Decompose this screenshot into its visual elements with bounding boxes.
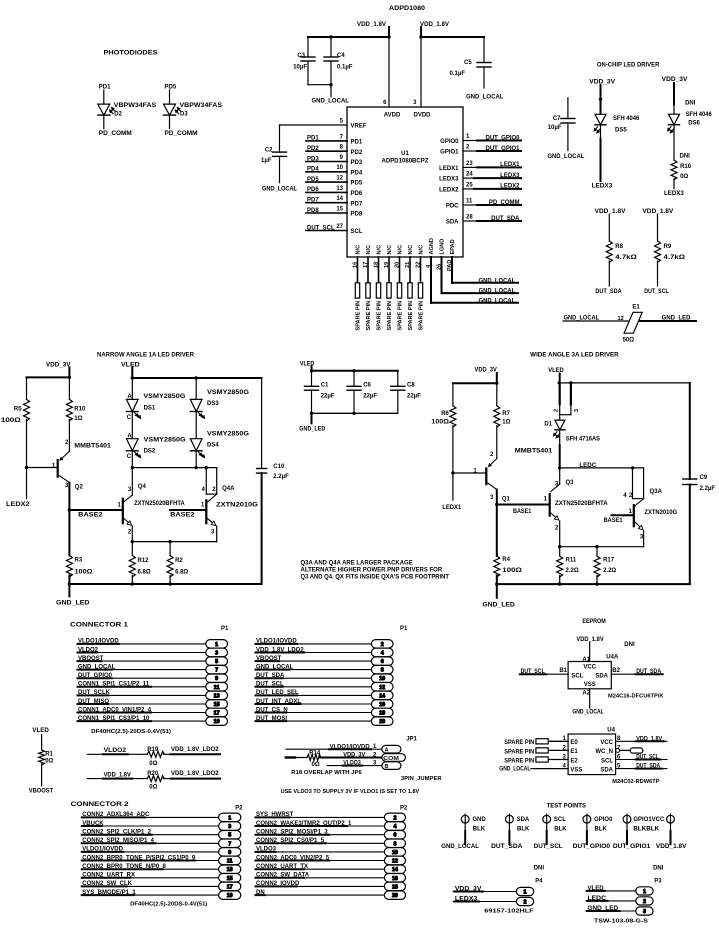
svg-text:VDD_3V: VDD_3V	[455, 887, 482, 893]
pin 18 N/C spare	[373, 245, 382, 331]
wire VLED caps top rail	[311, 367, 313, 371]
connector P2 pin 6 CONN2_SPI2_MOSI/P1_3	[256, 830, 406, 840]
svg-text:3: 3	[555, 482, 559, 488]
svg-text:M24C16-DFCU6TP/K: M24C16-DFCU6TP/K	[608, 693, 664, 699]
svg-text:2: 2	[643, 899, 646, 905]
svg-text:PAD: PAD	[447, 260, 453, 271]
power VDD_1.8V left	[357, 22, 386, 28]
section title CONNECTOR 1	[70, 622, 129, 629]
svg-text:15: 15	[227, 876, 233, 882]
svg-text:SFH 4046: SFH 4046	[686, 112, 713, 118]
connector P2 pin 20 DN	[256, 890, 406, 900]
svg-text:C: C	[127, 454, 132, 460]
resistor R10 1ohm	[66, 377, 86, 451]
svg-text:CONN2_SW_DATA: CONN2_SW_DATA	[256, 873, 310, 879]
pin 25 LEDX2	[439, 182, 521, 193]
svg-text:R20: R20	[147, 771, 159, 777]
power VDD_1.8V for R9	[642, 209, 673, 215]
svg-text:R18 OVERLAP WITH JP6: R18 OVERLAP WITH JP6	[291, 770, 362, 776]
svg-text:GND: GND	[472, 817, 486, 823]
svg-text:CONN2_SW_CLK: CONN2_SW_CLK	[82, 881, 132, 887]
svg-text:VBOOST: VBOOST	[256, 656, 282, 662]
svg-text:BASE1: BASE1	[604, 518, 624, 524]
wire BASE2 to Q4A	[170, 509, 206, 511]
svg-text:SPARE PIN: SPARE PIN	[504, 758, 534, 764]
svg-text:PD7: PD7	[307, 198, 319, 204]
resistor R19 0ohm row	[88, 747, 221, 767]
svg-text:NARROW ANGLE 1A LED DRIVER: NARROW ANGLE 1A LED DRIVER	[97, 351, 195, 358]
power VDD_3V for DS5	[589, 79, 615, 85]
pin 12 PD5	[306, 176, 363, 187]
svg-text:VLED: VLED	[548, 368, 564, 374]
svg-text:11: 11	[227, 859, 233, 865]
connector P1 pin 9 DUT_GPIO0	[78, 673, 228, 683]
svg-text:Q2: Q2	[75, 484, 84, 490]
svg-text:BASE2: BASE2	[170, 513, 195, 519]
svg-text:LEDX3: LEDX3	[592, 184, 613, 190]
wire AVDD rail	[308, 36, 389, 38]
svg-text:7: 7	[340, 134, 344, 140]
svg-text:VLED: VLED	[32, 728, 49, 734]
svg-text:DS5: DS5	[615, 127, 627, 133]
svg-text:A: A	[127, 394, 132, 400]
svg-text:BLKBLK: BLKBLK	[633, 826, 659, 832]
svg-text:PD2: PD2	[351, 150, 363, 156]
svg-text:R4: R4	[502, 557, 510, 563]
svg-text:GND_LOCAL: GND_LOCAL	[441, 844, 479, 850]
svg-text:Q3: Q3	[566, 480, 575, 486]
svg-text:VLDO1/IOVDD: VLDO1/IOVDD	[78, 639, 119, 645]
svg-text:CONN2_ADXL364_ADC: CONN2_ADXL364_ADC	[82, 812, 150, 818]
label DF40HC connector 2	[130, 901, 207, 907]
svg-text:19: 19	[227, 893, 233, 899]
svg-text:19: 19	[214, 719, 220, 725]
eeprom U4A M24C16-DFCU6TP/K	[519, 642, 663, 708]
svg-text:1: 1	[643, 889, 646, 895]
svg-text:AGND: AGND	[429, 238, 435, 254]
svg-text:JP1: JP1	[406, 736, 417, 742]
svg-text:WIDE ANGLE 3A LED DRIVER: WIDE ANGLE 3A LED DRIVER	[530, 352, 619, 359]
svg-text:GND_LOCAL: GND_LOCAL	[572, 709, 604, 715]
svg-text:PD3: PD3	[307, 156, 319, 162]
net DUT_SCL under R9	[644, 289, 669, 295]
power VLED narrow	[121, 362, 140, 368]
svg-text:P1: P1	[400, 626, 408, 632]
svg-text:PD7: PD7	[351, 201, 363, 207]
svg-text:9: 9	[215, 676, 218, 682]
wire VLED caps bottom rail	[312, 412, 398, 414]
svg-text:CONN1_SPI1_CS1/P2_11: CONN1_SPI1_CS1/P2_11	[78, 682, 150, 688]
net LEDX3 under DS5	[592, 184, 613, 190]
net tie E1 50ohm	[563, 305, 696, 344]
svg-text:5: 5	[340, 118, 344, 124]
svg-text:N/C: N/C	[356, 245, 362, 255]
svg-text:4: 4	[202, 487, 206, 493]
resistor R12 6.8ohm	[129, 542, 151, 584]
svg-text:6: 6	[381, 659, 384, 665]
svg-text:PD1: PD1	[307, 136, 319, 142]
svg-text:VLED: VLED	[300, 361, 315, 367]
svg-text:7: 7	[228, 841, 231, 847]
connector P1 label left	[221, 626, 229, 632]
svg-text:2.2µF: 2.2µF	[273, 474, 289, 480]
svg-text:14: 14	[379, 693, 385, 699]
note USE VLDO3	[281, 789, 420, 795]
svg-text:DUT_SCL: DUT_SCL	[256, 682, 284, 688]
svg-text:P1: P1	[221, 626, 229, 632]
resistor R5 100ohm	[1, 377, 30, 467]
svg-text:A: A	[385, 748, 389, 754]
svg-text:DUT_SCL: DUT_SCL	[521, 669, 545, 675]
svg-text:PD6: PD6	[307, 187, 319, 193]
svg-text:R1: R1	[45, 751, 53, 757]
svg-text:CONN2_BPR0_TONE_P/SPI2_CS1/P0_: CONN2_BPR0_TONE_P/SPI2_CS1/P0_9	[82, 855, 196, 861]
svg-text:U4A: U4A	[606, 655, 619, 661]
svg-text:PD_COMM: PD_COMM	[489, 200, 520, 206]
svg-text:SDA: SDA	[517, 817, 530, 823]
svg-text:MMBT5401: MMBT5401	[515, 449, 553, 455]
svg-text:VLDO2: VLDO2	[104, 748, 127, 754]
svg-text:VDD_1.8V: VDD_1.8V	[595, 209, 626, 215]
svg-text:Q3A AND Q4A ARE LARGER PACKAGE: Q3A AND Q4A ARE LARGER PACKAGE	[301, 561, 413, 567]
resistor R20 0ohm row	[88, 771, 221, 791]
connector P1 pin 10 DUT_SDA	[256, 673, 394, 683]
svg-text:DUT_SDA: DUT_SDA	[491, 844, 523, 850]
svg-text:C: C	[127, 415, 132, 421]
connector P2 pin 11 CONN2_BPR0_TONE_P/SPI2_CS1/P0_9	[82, 855, 241, 864]
svg-text:0Ω: 0Ω	[149, 785, 157, 791]
LED D1 SFH 4716AS	[544, 383, 600, 468]
svg-text:11: 11	[214, 685, 220, 691]
svg-text:DUT_CS_N: DUT_CS_N	[256, 707, 288, 713]
svg-text:DNI: DNI	[534, 866, 545, 872]
capacitor C1 22uF	[305, 371, 335, 414]
svg-text:BLK: BLK	[517, 826, 530, 832]
svg-text:DNI: DNI	[680, 154, 691, 160]
svg-text:PD5: PD5	[351, 181, 363, 187]
svg-text:VLDO1/IOVDD: VLDO1/IOVDD	[256, 639, 297, 645]
svg-text:3: 3	[643, 909, 646, 915]
wire BASE1 to Q3A	[612, 514, 634, 516]
LED DS3 VSMY2850G	[190, 378, 249, 439]
svg-text:DUT_SDA: DUT_SDA	[636, 764, 661, 770]
svg-text:VDD_1.8V: VDD_1.8V	[420, 22, 449, 28]
svg-text:CONNECTOR 2: CONNECTOR 2	[71, 801, 130, 808]
svg-text:D1: D1	[544, 422, 552, 428]
svg-text:DUT_SCL: DUT_SCL	[636, 755, 659, 761]
svg-text:GND_LOCAL: GND_LOCAL	[312, 99, 350, 105]
photodiode D3 VBPW34FAS	[164, 90, 223, 129]
svg-text:26: 26	[436, 264, 442, 270]
svg-text:BLK: BLK	[554, 826, 567, 832]
svg-text:12: 12	[618, 316, 624, 322]
svg-text:2: 2	[212, 487, 216, 493]
svg-text:20: 20	[379, 719, 385, 725]
svg-text:VSS: VSS	[584, 682, 596, 688]
svg-text:2: 2	[65, 440, 69, 446]
svg-text:N/C: N/C	[419, 245, 425, 255]
svg-text:DS1: DS1	[144, 405, 156, 411]
connector P1 pin 13 DUT_SCLK	[78, 690, 228, 699]
svg-text:VLDO2: VLDO2	[78, 647, 99, 653]
svg-text:SDA: SDA	[600, 767, 613, 773]
svg-text:1: 1	[118, 502, 122, 508]
wire Q4/Q4A emitter join	[132, 541, 216, 543]
svg-text:PHOTODIODES: PHOTODIODES	[104, 50, 158, 57]
svg-text:A2: A2	[582, 691, 590, 697]
pin 3 DVDD	[420, 37, 422, 107]
resistor R16 0ohm DNI	[671, 154, 692, 189]
svg-text:21: 21	[405, 262, 411, 268]
svg-text:DUT_SDA: DUT_SDA	[256, 673, 285, 679]
svg-text:C4: C4	[337, 53, 345, 59]
svg-text:VDD_1.8V: VDD_1.8V	[656, 844, 687, 850]
svg-text:VREF: VREF	[351, 124, 367, 130]
connector P2 pin 9 VLDO1/IOVDD	[82, 847, 241, 856]
svg-text:1µF: 1µF	[261, 158, 272, 164]
svg-text:1: 1	[544, 497, 548, 503]
svg-text:DVDD: DVDD	[413, 113, 431, 119]
svg-text:GND_LED: GND_LED	[588, 906, 619, 912]
svg-text:ZXTN25020BFHTA: ZXTN25020BFHTA	[134, 501, 185, 507]
svg-text:P4: P4	[535, 878, 543, 884]
svg-text:100Ω: 100Ω	[431, 419, 449, 425]
svg-text:3: 3	[574, 409, 580, 412]
svg-text:GPIO0: GPIO0	[594, 817, 613, 823]
power VLED caps	[300, 361, 315, 367]
connector P1 pin 3 VLDO2	[78, 647, 228, 656]
pin PAD EPAD	[447, 239, 518, 284]
svg-text:1: 1	[52, 464, 56, 470]
svg-text:2: 2	[524, 900, 527, 906]
svg-text:VDD_1.8V_LDO2: VDD_1.8V_LDO2	[171, 771, 219, 777]
svg-text:16: 16	[352, 262, 358, 268]
capacitor C6 22uF	[347, 371, 377, 414]
svg-text:LEDX2: LEDX2	[439, 188, 459, 194]
svg-text:VBOOST: VBOOST	[78, 656, 104, 662]
svg-text:16: 16	[392, 876, 398, 882]
test point VDD_1.8V	[656, 814, 687, 850]
pin 13 PD6	[306, 186, 363, 197]
transistor Q3 ZXTN25020BFHTA	[544, 468, 609, 547]
svg-text:VBUCK: VBUCK	[82, 821, 104, 827]
svg-text:18: 18	[373, 262, 379, 268]
wire VDD_1.8V left stub	[388, 27, 390, 37]
connector P2 pin 15 CONN2_UART_RX	[82, 873, 241, 882]
ground GND_LED caps	[299, 413, 326, 432]
connector P2 pin 1 CONN2_ADXL364_ADC	[82, 812, 241, 821]
svg-text:PD5: PD5	[307, 177, 319, 183]
svg-text:ZXTN2010G: ZXTN2010G	[644, 510, 677, 516]
connector P2 pin 10 VLDO3	[256, 847, 406, 856]
eeprom U4 M24C02-RDW6TP	[499, 728, 667, 775]
net PD_COMM for D2	[99, 131, 132, 137]
svg-text:VBOOST: VBOOST	[29, 789, 54, 795]
svg-text:SPARE PIN: SPARE PIN	[504, 749, 534, 755]
connector P2 pin 13 CONN2_BPR0_TONE_N/P0_8	[82, 864, 241, 874]
svg-text:6.8Ω: 6.8Ω	[175, 570, 188, 576]
svg-text:GND_LED: GND_LED	[662, 316, 692, 322]
svg-text:CONN2_UART_RX: CONN2_UART_RX	[82, 873, 135, 879]
svg-text:4: 4	[393, 824, 396, 830]
ground GND_LOCAL under U4A	[572, 709, 604, 715]
LED DS2 VSMY2850G	[126, 434, 186, 468]
svg-text:PD6: PD6	[351, 191, 363, 197]
svg-text:DF40HC(2.5)-20DS-0.4V(51): DF40HC(2.5)-20DS-0.4V(51)	[91, 729, 171, 735]
svg-text:CONN1_SPI1_CS3/P1_10: CONN1_SPI1_CS3/P1_10	[78, 716, 150, 722]
svg-text:VDD_3V: VDD_3V	[46, 362, 70, 368]
svg-text:C7: C7	[553, 116, 561, 122]
svg-text:DUT_SCLK: DUT_SCLK	[78, 690, 111, 696]
svg-text:CONN2_UART_TX: CONN2_UART_TX	[256, 864, 308, 870]
svg-text:PD4: PD4	[351, 170, 363, 176]
svg-text:C6: C6	[363, 383, 371, 389]
svg-text:VSS: VSS	[570, 767, 582, 773]
svg-text:8: 8	[340, 145, 344, 151]
svg-text:LEDX3: LEDX3	[664, 191, 684, 197]
transistor Q1 MMBT5401	[473, 449, 553, 505]
svg-text:20: 20	[392, 893, 398, 899]
connector P2 pin 18 CONN2_IOVDD	[256, 881, 406, 890]
svg-text:DUT_GPIO1: DUT_GPIO1	[613, 844, 651, 850]
connector P1 pin 17 CONN1_ADC0_VIN1/P2_4	[78, 707, 228, 716]
wire Q2 base to LEDX2	[27, 467, 58, 469]
note R18 OVERLAP WITH JP6	[291, 770, 362, 776]
connector P3 TSW-103-08-G-S	[586, 878, 662, 924]
pin 23 LEDX1	[439, 161, 521, 172]
svg-text:DNI: DNI	[624, 642, 635, 648]
connector P1 pin 1 VLDO1/IOVDD	[78, 639, 228, 648]
svg-text:VSMY2850G: VSMY2850G	[144, 437, 186, 443]
svg-text:C1: C1	[321, 383, 329, 389]
svg-text:E1: E1	[570, 749, 578, 755]
svg-text:PD_COMM: PD_COMM	[99, 131, 132, 137]
svg-text:12: 12	[392, 859, 398, 865]
wire BASE2 Q2 to Q4	[69, 509, 122, 511]
section title WIDE ANGLE 3A LED DRIVER	[530, 352, 619, 359]
svg-text:2: 2	[490, 452, 494, 458]
pin 21 N/C spare	[405, 245, 414, 331]
connector P1 pin 15 DUT_MISO	[78, 699, 228, 709]
svg-text:SPARE PIN: SPARE PIN	[377, 301, 383, 331]
svg-text:LEDX3: LEDX3	[439, 177, 459, 183]
svg-text:VCC: VCC	[583, 664, 596, 670]
wire LEDC node	[560, 467, 644, 469]
svg-text:0.1µF: 0.1µF	[450, 71, 466, 77]
node PD1	[99, 85, 111, 91]
svg-text:BASE1: BASE1	[513, 509, 532, 515]
svg-text:DUT_SDA: DUT_SDA	[636, 669, 662, 675]
svg-text:D2: D2	[114, 111, 122, 117]
label DF40HC connector 1	[91, 729, 171, 735]
svg-text:CONNECTOR 1: CONNECTOR 1	[70, 622, 129, 629]
svg-text:VDD_1.8V_LDO2: VDD_1.8V_LDO2	[256, 647, 304, 653]
svg-text:11: 11	[466, 198, 473, 204]
svg-text:R16: R16	[680, 164, 692, 170]
svg-text:24: 24	[466, 172, 473, 178]
connector P4 69157-102HLF	[453, 878, 543, 914]
svg-text:LEDX3: LEDX3	[455, 897, 478, 903]
svg-text:N/C: N/C	[387, 245, 393, 255]
svg-text:10: 10	[392, 850, 398, 856]
pin 16 N/C spare	[352, 245, 361, 331]
transistor Q2 MMBT5401	[52, 440, 112, 510]
capacitor C10 2.2uF	[257, 378, 289, 584]
connector P2 pin 7 CONN2_SPI2_MISO/P1_4	[82, 838, 241, 847]
connector P2 label right	[400, 806, 408, 812]
svg-text:6: 6	[383, 100, 387, 106]
section title PHOTODIODES	[104, 50, 158, 57]
connector P1 pin 6 VBOOST	[256, 656, 394, 666]
label DNI U4A	[624, 642, 635, 648]
svg-text:15: 15	[336, 206, 343, 212]
svg-text:PD2: PD2	[307, 146, 319, 152]
wire Q3/Q3A emitter join	[560, 546, 644, 548]
svg-text:ADPD1080BCPZ: ADPD1080BCPZ	[382, 159, 429, 165]
svg-text:CONN2_SPI2_CLK/P1_2: CONN2_SPI2_CLK/P1_2	[82, 830, 151, 836]
svg-text:GND_LOCAL: GND_LOCAL	[466, 95, 504, 101]
svg-text:PD_COMM: PD_COMM	[165, 131, 198, 137]
svg-text:2: 2	[381, 642, 384, 648]
svg-text:DS6: DS6	[688, 121, 700, 127]
svg-text:10: 10	[379, 676, 385, 682]
svg-text:VDD_3V: VDD_3V	[589, 79, 615, 85]
LED DS5 SFH 4046	[593, 85, 640, 181]
svg-text:DUT_INT_ADXL: DUT_INT_ADXL	[256, 699, 301, 705]
power VDD_3V for DS6	[662, 77, 688, 83]
svg-text:SYS_BMODE/P1_1: SYS_BMODE/P1_1	[82, 890, 136, 896]
svg-text:WC_N: WC_N	[595, 749, 613, 755]
svg-text:USE VLDO3 TO SUPPLY 3V IF VLDO: USE VLDO3 TO SUPPLY 3V IF VLDO1 IS SET T…	[281, 789, 420, 795]
connector P1 pin 16 DUT_INT_ADXL	[256, 699, 394, 709]
svg-text:R8: R8	[615, 244, 623, 250]
svg-text:GPIO1VCC: GPIO1VCC	[633, 817, 665, 823]
svg-text:ZXTN25020BFHTA: ZXTN25020BFHTA	[555, 501, 608, 507]
connector P2 pin 19 SYS_BMODE/P1_1	[82, 890, 241, 900]
svg-text:DUT_SCL: DUT_SCL	[534, 844, 563, 850]
svg-text:R11: R11	[566, 558, 577, 564]
svg-text:7: 7	[215, 668, 218, 674]
connector P2 pin 2 SYS_HWRST	[256, 812, 406, 821]
connector P1 pin 2 VLDO1/IOVDD	[256, 639, 394, 648]
net PD_COMM for D3	[165, 131, 198, 137]
svg-text:69157-102HLF: 69157-102HLF	[484, 909, 534, 915]
svg-text:VLDO3: VLDO3	[256, 847, 277, 853]
connector P2 pin 16 CONN2_SW_DATA	[256, 873, 406, 882]
svg-text:100Ω: 100Ω	[502, 568, 522, 574]
test point DUT_SCL	[534, 814, 568, 850]
svg-text:22: 22	[415, 262, 421, 268]
svg-text:M24C02-RDW6TP: M24C02-RDW6TP	[612, 779, 659, 785]
svg-text:3: 3	[215, 651, 218, 657]
svg-text:CONN2_SPI2_MISO/P1_4: CONN2_SPI2_MISO/P1_4	[82, 838, 154, 844]
svg-text:VSMY2850G: VSMY2850G	[143, 394, 185, 400]
connector P1 pin 5 VBOOST	[78, 656, 228, 666]
power VDD_1.8V for U4A	[576, 637, 603, 643]
svg-text:VDD_1.8V_LDO2: VDD_1.8V_LDO2	[171, 747, 219, 753]
svg-text:DNI: DNI	[685, 100, 696, 106]
svg-text:R6: R6	[441, 411, 449, 417]
svg-text:COM: COM	[383, 756, 399, 762]
connector P2 pin 4 CONN2_WAKE3/TMR2_OUT/P2_1	[256, 821, 406, 831]
connector P2 pin 17 CONN2_SW_CLK	[82, 881, 241, 890]
svg-text:1: 1	[466, 134, 470, 140]
capacitor C4 0.1uF	[324, 35, 353, 86]
svg-text:VDD_1.8V: VDD_1.8V	[104, 772, 131, 778]
connector P1 pin 12 DUT_SCL	[256, 682, 394, 691]
LED DS4 VSMY2850G	[190, 431, 249, 467]
svg-text:R19: R19	[147, 747, 159, 753]
